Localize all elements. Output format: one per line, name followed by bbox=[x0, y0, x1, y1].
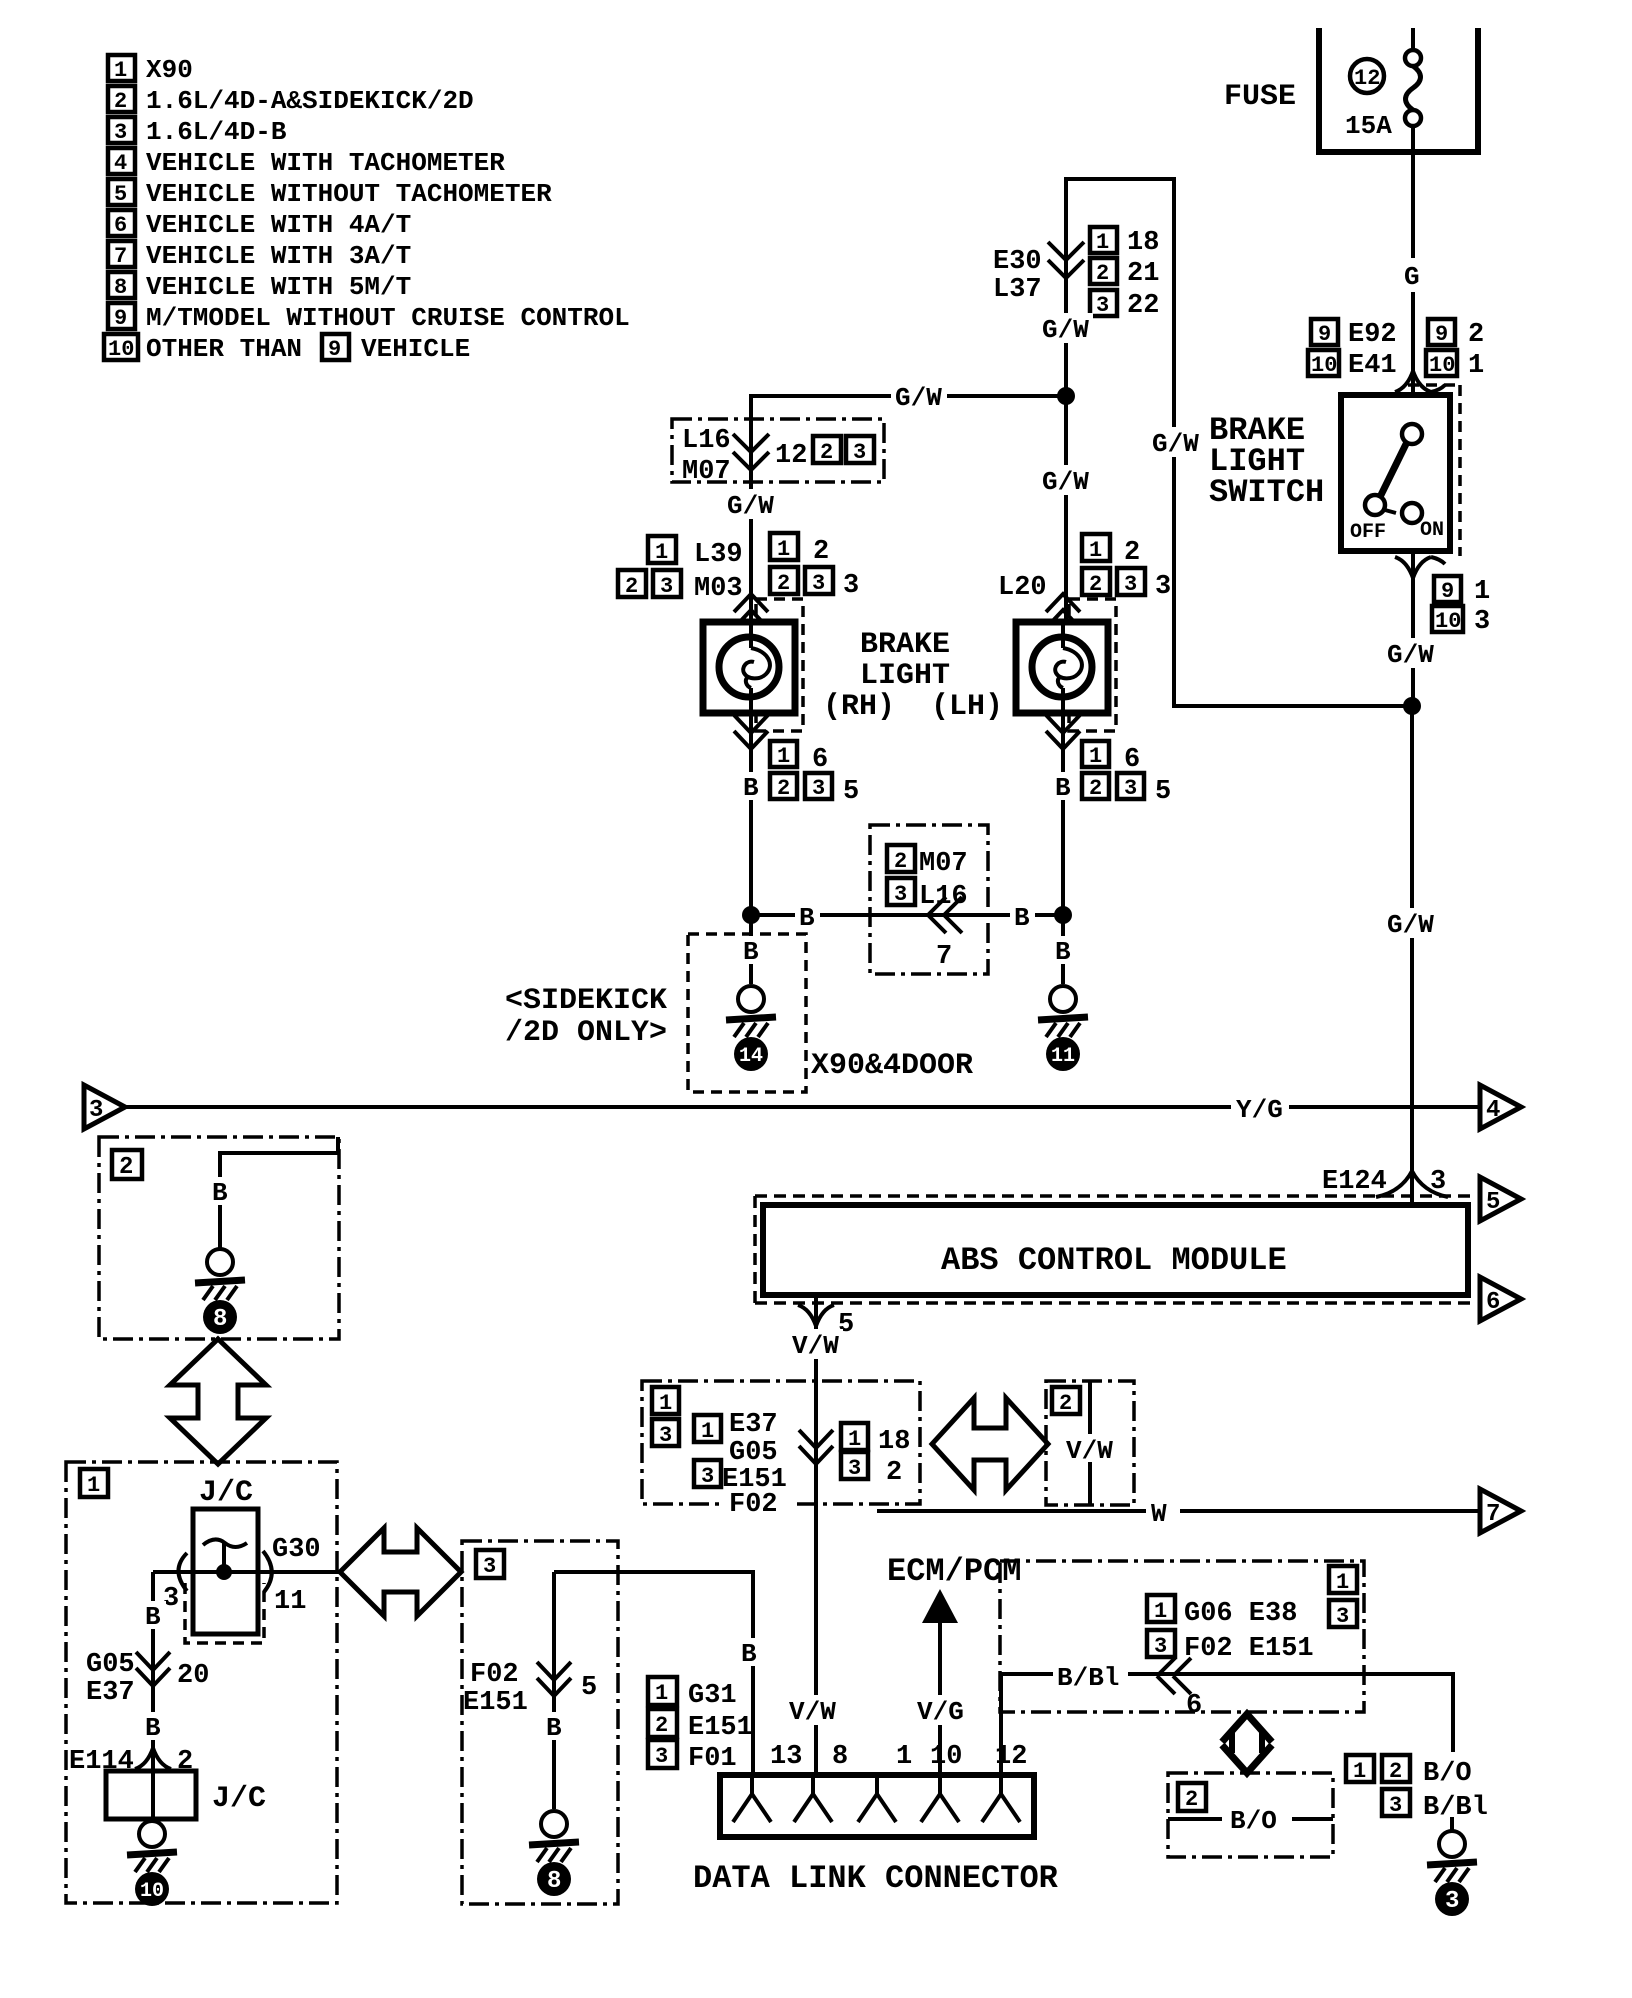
legend item 9 bbox=[108, 303, 630, 333]
wire label B at LH ground bbox=[1050, 936, 1076, 967]
ground symbol 8 upper bbox=[195, 1249, 245, 1334]
box 1 J/C bbox=[66, 1462, 337, 1903]
connector chevrons below RH bulb bbox=[734, 715, 768, 749]
svg-text:3: 3 bbox=[114, 120, 127, 145]
svg-text:3: 3 bbox=[483, 1554, 496, 1579]
svg-text:10: 10 bbox=[1311, 353, 1337, 378]
svg-text:10: 10 bbox=[140, 1880, 164, 1903]
svg-text:V/W: V/W bbox=[792, 1331, 839, 1361]
wire label G/W above RH lamp bbox=[724, 489, 778, 521]
svg-text:1: 1 bbox=[655, 1681, 668, 1706]
connector chevrons above RH bulb bbox=[734, 594, 768, 628]
legend item 7 bbox=[108, 241, 411, 271]
wire label B below LH bulb bbox=[1050, 772, 1076, 803]
svg-text:12: 12 bbox=[1354, 66, 1380, 91]
svg-text:2: 2 bbox=[1059, 1391, 1072, 1416]
ground symbol 11 bbox=[1038, 986, 1088, 1071]
svg-text:20: 20 bbox=[177, 1661, 209, 1691]
svg-text:14: 14 bbox=[739, 1045, 763, 1068]
svg-text:VEHICLE WITH 3A/T: VEHICLE WITH 3A/T bbox=[146, 241, 411, 271]
legend item 6 bbox=[108, 210, 411, 240]
svg-text:G/W: G/W bbox=[1042, 467, 1089, 497]
svg-text:B: B bbox=[1055, 773, 1071, 803]
svg-text:2: 2 bbox=[820, 440, 833, 465]
legend item 5 bbox=[108, 179, 552, 209]
brake light RH dashed box bbox=[756, 599, 803, 731]
wire below RH bulb bbox=[749, 713, 753, 915]
box 2 B/O bbox=[1168, 1773, 1333, 1857]
svg-text:E37: E37 bbox=[729, 1410, 778, 1440]
svg-text:ON: ON bbox=[1420, 519, 1444, 542]
connector chevrons above LH bulb bbox=[1046, 594, 1080, 628]
legend item 1 X90 bbox=[108, 55, 193, 85]
wire Y/G bbox=[125, 1095, 1478, 1125]
page arrow 7 right bbox=[1480, 1489, 1521, 1533]
box 2 upper left bbox=[99, 1137, 339, 1339]
wire B down from J/C bbox=[151, 1572, 155, 1771]
svg-text:X90&4DOOR: X90&4DOOR bbox=[811, 1049, 973, 1083]
svg-text:L16: L16 bbox=[682, 426, 731, 456]
connector G06/E38 box bbox=[1000, 1561, 1364, 1712]
wire label B at RH ground bbox=[738, 936, 764, 967]
connector L16/M07 box bbox=[672, 419, 884, 487]
ground wire RH bbox=[749, 915, 753, 984]
wire label B above DLC pin 13 bbox=[736, 1638, 764, 1669]
double arrow horizontal big bbox=[340, 1528, 461, 1616]
connector chevron at switch top bbox=[1395, 371, 1445, 392]
svg-text:B: B bbox=[741, 1639, 757, 1669]
connector chevron below switch bbox=[1395, 557, 1445, 578]
wire B between lamps bbox=[751, 913, 1063, 917]
svg-text:12: 12 bbox=[775, 441, 807, 471]
wire label B left bbox=[795, 901, 820, 933]
wire label B below RH bulb bbox=[738, 772, 764, 803]
svg-text:10: 10 bbox=[108, 337, 134, 362]
svg-text:VEHICLE: VEHICLE bbox=[361, 334, 470, 364]
svg-text:5: 5 bbox=[114, 182, 127, 207]
svg-text:G05: G05 bbox=[729, 1438, 778, 1468]
legend item 3 bbox=[108, 117, 287, 147]
svg-text:3: 3 bbox=[1336, 1604, 1349, 1629]
box 2 with V/W bbox=[1046, 1381, 1134, 1505]
wire label G/W on horizontal bbox=[891, 381, 947, 413]
wire label B right bbox=[1010, 901, 1035, 933]
svg-text:M/TMODEL WITHOUT CRUISE CONTRO: M/TMODEL WITHOUT CRUISE CONTROL bbox=[146, 303, 630, 333]
connector 6 chevrons bbox=[1157, 1658, 1202, 1721]
svg-text:18: 18 bbox=[878, 1427, 910, 1457]
svg-text:8: 8 bbox=[213, 1306, 227, 1333]
svg-text:VEHICLE WITH TACHOMETER: VEHICLE WITH TACHOMETER bbox=[146, 148, 505, 178]
svg-text:5: 5 bbox=[843, 777, 859, 807]
DLC pin numbers bbox=[770, 1742, 1027, 1772]
svg-text:G/W: G/W bbox=[1152, 429, 1199, 459]
svg-text:2: 2 bbox=[1096, 261, 1109, 286]
connector L39/M03 labels bbox=[618, 533, 859, 604]
svg-text:9: 9 bbox=[328, 337, 341, 362]
connector E124 chevron bbox=[1322, 1167, 1448, 1205]
svg-text:1: 1 bbox=[659, 1391, 672, 1416]
svg-text:11: 11 bbox=[274, 1587, 306, 1617]
svg-text:11: 11 bbox=[1051, 1045, 1075, 1068]
svg-text:L37: L37 bbox=[993, 275, 1042, 305]
svg-text:E41: E41 bbox=[1348, 351, 1397, 381]
svg-text:G/W: G/W bbox=[1042, 315, 1089, 345]
svg-text:2: 2 bbox=[655, 1713, 668, 1738]
wire label B under J/C bbox=[140, 1601, 166, 1632]
svg-text:2: 2 bbox=[1185, 1787, 1198, 1812]
svg-text:2: 2 bbox=[886, 1458, 902, 1488]
ground symbol 3 bbox=[1427, 1817, 1477, 1916]
wire B down in box 3 bbox=[552, 1572, 556, 1809]
svg-text:E151: E151 bbox=[688, 1713, 753, 1743]
wire label V/G at DLC bbox=[914, 1695, 966, 1727]
wire label B in box 3 bbox=[541, 1712, 567, 1743]
connector chevrons on V/W wire bbox=[799, 1430, 833, 1464]
svg-text:3: 3 bbox=[1430, 1167, 1446, 1197]
svg-text:E151: E151 bbox=[463, 1688, 528, 1718]
svg-text:3: 3 bbox=[660, 574, 673, 599]
legend item 4 bbox=[108, 148, 505, 178]
svg-text:1: 1 bbox=[777, 744, 790, 769]
wire B/Bl from DLC pin 12 bbox=[1001, 1663, 1453, 1775]
fuse element F12 bbox=[1405, 28, 1421, 126]
brake light LH dashed box bbox=[1069, 599, 1116, 731]
switch ON label bbox=[1420, 519, 1444, 542]
connector E92/E41 labels bbox=[1308, 319, 1484, 381]
node junction at switch output bbox=[1403, 697, 1421, 715]
ABS control module box bbox=[763, 1205, 1468, 1295]
svg-text:3: 3 bbox=[1154, 1634, 1167, 1659]
svg-text:5: 5 bbox=[1155, 777, 1171, 807]
svg-text:1: 1 bbox=[848, 1427, 861, 1452]
svg-text:1: 1 bbox=[1474, 577, 1490, 607]
svg-text:9: 9 bbox=[1441, 579, 1454, 604]
svg-text:B: B bbox=[799, 903, 815, 933]
svg-text:(RH) (LH): (RH) (LH) bbox=[823, 690, 1003, 724]
svg-text:3: 3 bbox=[1124, 572, 1137, 597]
svg-text:2: 2 bbox=[1089, 776, 1102, 801]
svg-text:15A: 15A bbox=[1345, 111, 1392, 141]
wire G30 through J/C bbox=[153, 1535, 340, 1572]
svg-text:1: 1 bbox=[1154, 1599, 1167, 1624]
svg-text:4: 4 bbox=[1486, 1097, 1500, 1124]
svg-text:G/W: G/W bbox=[727, 491, 774, 521]
svg-text:G31: G31 bbox=[688, 1681, 737, 1711]
svg-text:/2D ONLY>: /2D ONLY> bbox=[505, 1016, 667, 1050]
svg-text:G05: G05 bbox=[86, 1650, 135, 1680]
svg-text:J/C: J/C bbox=[212, 1782, 266, 1816]
svg-text:3: 3 bbox=[89, 1097, 103, 1124]
svg-text:3: 3 bbox=[843, 571, 859, 601]
node junction G/W branch bbox=[1057, 387, 1075, 405]
wire G from fuse bbox=[1404, 126, 1420, 395]
svg-text:3: 3 bbox=[1474, 607, 1490, 637]
svg-text:3: 3 bbox=[853, 440, 866, 465]
svg-text:G30: G30 bbox=[272, 1535, 321, 1565]
svg-text:B: B bbox=[212, 1178, 228, 1208]
brake light switch label bbox=[1209, 412, 1324, 511]
svg-text:7: 7 bbox=[1486, 1501, 1500, 1528]
svg-text:E124: E124 bbox=[1322, 1167, 1387, 1197]
svg-text:F02 E151: F02 E151 bbox=[1184, 1634, 1314, 1664]
DLC pin id boxes G31 E151 F01 bbox=[648, 1677, 753, 1774]
connector E114 chevron bbox=[69, 1747, 193, 1777]
svg-text:OTHER THAN: OTHER THAN bbox=[146, 334, 302, 364]
svg-text:9: 9 bbox=[1435, 322, 1448, 347]
wire B in box 2 bbox=[220, 1137, 338, 1248]
legend item 8 bbox=[108, 272, 411, 302]
brake light switch dashed boundary bbox=[1408, 385, 1460, 556]
svg-text:E92: E92 bbox=[1348, 320, 1397, 350]
ABS control module dashed boundary bbox=[755, 1196, 1475, 1303]
connector L20 labels bbox=[998, 534, 1171, 603]
svg-text:BRAKE: BRAKE bbox=[860, 628, 950, 662]
connector E30/L37 chevrons bbox=[1048, 242, 1084, 278]
switch OFF label bbox=[1350, 521, 1386, 544]
svg-text:3: 3 bbox=[1445, 1888, 1459, 1915]
svg-text:10: 10 bbox=[1435, 609, 1461, 634]
svg-text:2: 2 bbox=[1124, 538, 1140, 568]
svg-text:8: 8 bbox=[114, 275, 127, 300]
svg-text:VEHICLE WITHOUT TACHOMETER: VEHICLE WITHOUT TACHOMETER bbox=[146, 179, 552, 209]
svg-text:<SIDEKICK: <SIDEKICK bbox=[505, 984, 667, 1018]
junction connector J/C lower box bbox=[106, 1771, 266, 1819]
svg-text:10: 10 bbox=[1429, 353, 1455, 378]
svg-text:2: 2 bbox=[114, 89, 127, 114]
svg-text:2: 2 bbox=[777, 571, 790, 596]
wire label V/W upper bbox=[789, 1329, 843, 1361]
svg-text:3: 3 bbox=[1389, 1793, 1402, 1818]
svg-text:1: 1 bbox=[1468, 351, 1484, 381]
svg-text:1: 1 bbox=[777, 537, 790, 562]
wire G/W loop to E30/L37 bbox=[1066, 179, 1412, 706]
connector F02/E151 chevrons bbox=[463, 1660, 597, 1718]
svg-text:M03: M03 bbox=[694, 574, 743, 604]
svg-text:3: 3 bbox=[655, 1744, 668, 1769]
connector G05/E37 chevrons bbox=[86, 1650, 209, 1708]
svg-text:V/W: V/W bbox=[1066, 1436, 1113, 1466]
wire label B in box 2 bbox=[207, 1177, 233, 1208]
svg-text:2: 2 bbox=[1089, 572, 1102, 597]
svg-text:7: 7 bbox=[114, 244, 127, 269]
svg-text:B/O: B/O bbox=[1230, 1806, 1277, 1836]
brake light LH bulb bbox=[1016, 622, 1108, 713]
svg-text:X90: X90 bbox=[146, 55, 193, 85]
svg-text:SWITCH: SWITCH bbox=[1209, 474, 1324, 511]
ground wire LH bbox=[1061, 915, 1065, 984]
page arrow 6 right bbox=[1480, 1277, 1521, 1321]
svg-text:L39: L39 bbox=[694, 540, 743, 570]
svg-text:3: 3 bbox=[812, 776, 825, 801]
svg-text:VEHICLE WITH 4A/T: VEHICLE WITH 4A/T bbox=[146, 210, 411, 240]
svg-text:G/W: G/W bbox=[1387, 640, 1434, 670]
node junction RH ground bbox=[742, 906, 760, 924]
svg-text:B/Bl: B/Bl bbox=[1057, 1663, 1119, 1693]
svg-text:FUSE: FUSE bbox=[1224, 80, 1296, 114]
ECM/PCM label and arrow bbox=[887, 1553, 1021, 1775]
svg-text:M07: M07 bbox=[919, 849, 968, 879]
wire G/W to ABS module bbox=[1410, 706, 1414, 1174]
svg-text:6: 6 bbox=[114, 213, 127, 238]
double arrow vertical big bbox=[170, 1339, 266, 1464]
connector 7 chevrons bbox=[928, 897, 962, 933]
svg-text:8: 8 bbox=[547, 1868, 561, 1895]
svg-text:E30: E30 bbox=[993, 247, 1042, 277]
svg-text:7: 7 bbox=[936, 942, 952, 972]
svg-text:F01: F01 bbox=[688, 1744, 737, 1774]
svg-text:1: 1 bbox=[114, 58, 127, 83]
wire label G/W above junction bbox=[1039, 313, 1093, 345]
svg-text:E37: E37 bbox=[86, 1678, 135, 1708]
svg-text:LIGHT: LIGHT bbox=[860, 659, 950, 693]
LH lamp branch wire bbox=[1064, 396, 1068, 622]
wire label B above E114 bbox=[140, 1712, 166, 1743]
connector L16/M07 chevrons bbox=[733, 434, 769, 470]
svg-text:2: 2 bbox=[1468, 320, 1484, 350]
svg-text:ABS CONTROL MODULE: ABS CONTROL MODULE bbox=[941, 1242, 1287, 1279]
sidekick dashed box bbox=[688, 934, 806, 1092]
wire label G/W above module bbox=[1384, 908, 1440, 940]
svg-text:3: 3 bbox=[848, 1456, 861, 1481]
data link connector box bbox=[720, 1775, 1034, 1837]
V/W pin boxes 1-18 3-2 bbox=[841, 1423, 910, 1488]
page arrow 3 left bbox=[84, 1085, 125, 1129]
svg-text:3: 3 bbox=[894, 882, 907, 907]
svg-text:10: 10 bbox=[930, 1742, 962, 1772]
brake light labels RH LH bbox=[823, 628, 1003, 724]
svg-text:B/Bl: B/Bl bbox=[1423, 1793, 1488, 1823]
connector M07/L16 box 7 bbox=[870, 825, 988, 974]
LH bulb pin boxes 1-6 2/3-5 bbox=[1082, 741, 1171, 807]
svg-text:1: 1 bbox=[896, 1742, 912, 1772]
svg-text:DATA LINK CONNECTOR: DATA LINK CONNECTOR bbox=[693, 1860, 1059, 1897]
brake light switch box bbox=[1341, 395, 1450, 551]
wire from switch bottom bbox=[1411, 551, 1415, 706]
svg-text:6: 6 bbox=[1486, 1289, 1500, 1316]
svg-text:5: 5 bbox=[1486, 1189, 1500, 1216]
svg-text:G06 E38: G06 E38 bbox=[1184, 1599, 1297, 1629]
connector E37/G05/E151/F02 box bbox=[642, 1381, 920, 1520]
svg-text:V/W: V/W bbox=[789, 1697, 836, 1727]
svg-text:B: B bbox=[743, 937, 759, 967]
wire G/W horizontal to RH lamp branch bbox=[751, 396, 1066, 622]
wire label G/W on left vertical bbox=[1149, 427, 1205, 459]
connector arcs on J/C wire bbox=[179, 1551, 272, 1592]
svg-text:6: 6 bbox=[1124, 745, 1140, 775]
svg-text:3: 3 bbox=[812, 571, 825, 596]
svg-text:VEHICLE WITH 5M/T: VEHICLE WITH 5M/T bbox=[146, 272, 411, 302]
wire from box 3 to DLC pin 13 bbox=[554, 1572, 753, 1775]
RH bulb pin boxes 1-6 2/3-5 bbox=[770, 741, 859, 807]
legend item 10 bbox=[104, 334, 470, 364]
svg-text:1: 1 bbox=[655, 540, 668, 565]
svg-text:1: 1 bbox=[1089, 538, 1102, 563]
ABS module output pin 5 bbox=[798, 1295, 854, 1775]
svg-text:B: B bbox=[145, 1713, 161, 1743]
B/O B/Bl pin boxes bbox=[1346, 1755, 1488, 1823]
wire below LH bulb bbox=[1061, 713, 1065, 915]
junction connector J/C box bbox=[185, 1509, 264, 1643]
svg-text:6: 6 bbox=[1186, 1691, 1202, 1721]
svg-text:18: 18 bbox=[1127, 228, 1159, 258]
brake light RH bulb bbox=[703, 622, 795, 713]
svg-text:1: 1 bbox=[87, 1473, 100, 1498]
svg-text:2: 2 bbox=[625, 574, 638, 599]
svg-text:3: 3 bbox=[1096, 293, 1109, 318]
legend item 2 bbox=[108, 86, 474, 116]
page arrow 4 right bbox=[1480, 1085, 1521, 1129]
svg-text:1: 1 bbox=[1096, 230, 1109, 255]
ground symbol 14 bbox=[726, 986, 776, 1071]
wire label V/W at DLC bbox=[786, 1695, 840, 1727]
svg-text:B/O: B/O bbox=[1423, 1759, 1472, 1789]
fuse circuit number 12 bbox=[1350, 59, 1384, 93]
connector E30/L37 labels bbox=[993, 227, 1159, 321]
brake light switch contacts bbox=[1365, 424, 1422, 523]
box 3 bbox=[462, 1541, 618, 1904]
svg-text:F02: F02 bbox=[729, 1490, 778, 1520]
double arrow vertical small bbox=[1222, 1714, 1272, 1773]
svg-text:B: B bbox=[145, 1602, 161, 1632]
svg-text:22: 22 bbox=[1127, 291, 1159, 321]
svg-text:M07: M07 bbox=[682, 457, 731, 487]
svg-text:1: 1 bbox=[1089, 744, 1102, 769]
svg-text:8: 8 bbox=[832, 1742, 848, 1772]
svg-text:2: 2 bbox=[119, 1154, 133, 1181]
wire W to arrow 7 bbox=[877, 1499, 1478, 1529]
J/C pin labels 3 and 11 bbox=[163, 1584, 306, 1617]
double arrow mid bbox=[932, 1398, 1048, 1490]
X90 4door label bbox=[811, 1049, 973, 1083]
svg-text:9: 9 bbox=[1318, 322, 1331, 347]
wire label G/W above LH lamp bbox=[1039, 465, 1093, 497]
svg-text:21: 21 bbox=[1127, 259, 1159, 289]
svg-text:W: W bbox=[1151, 1499, 1167, 1529]
svg-text:J/C: J/C bbox=[199, 1476, 253, 1510]
page arrow 5 right bbox=[1480, 1177, 1521, 1221]
svg-text:1: 1 bbox=[1336, 1570, 1349, 1595]
svg-text:2: 2 bbox=[813, 537, 829, 567]
ground symbol 8 lower bbox=[529, 1811, 579, 1896]
svg-text:B: B bbox=[1055, 937, 1071, 967]
node junction LH ground bbox=[1054, 906, 1072, 924]
svg-text:1: 1 bbox=[701, 1419, 714, 1444]
switch pin boxes 9-1 10-3 bbox=[1432, 576, 1490, 637]
data link connector label bbox=[693, 1860, 1059, 1897]
connector chevrons below LH bulb bbox=[1046, 715, 1080, 749]
svg-text:6: 6 bbox=[812, 745, 828, 775]
svg-text:1.6L/4D-B: 1.6L/4D-B bbox=[146, 117, 287, 147]
svg-text:1.6L/4D-A&SIDEKICK/2D: 1.6L/4D-A&SIDEKICK/2D bbox=[146, 86, 474, 116]
svg-text:1: 1 bbox=[1353, 1759, 1366, 1784]
svg-text:9: 9 bbox=[114, 306, 127, 331]
DLC pin forks bbox=[733, 1775, 1020, 1822]
svg-text:L20: L20 bbox=[998, 573, 1047, 603]
svg-text:2: 2 bbox=[894, 849, 907, 874]
svg-text:B: B bbox=[546, 1713, 562, 1743]
svg-text:5: 5 bbox=[581, 1673, 597, 1703]
svg-text:3: 3 bbox=[659, 1423, 672, 1448]
svg-text:3: 3 bbox=[701, 1464, 714, 1489]
svg-text:3: 3 bbox=[1155, 572, 1171, 602]
svg-text:B: B bbox=[743, 773, 759, 803]
svg-text:V/G: V/G bbox=[917, 1697, 964, 1727]
svg-text:G/W: G/W bbox=[895, 383, 942, 413]
svg-text:4: 4 bbox=[114, 151, 127, 176]
fuse 15A bbox=[1345, 111, 1392, 141]
svg-text:G: G bbox=[1404, 262, 1420, 292]
svg-text:2: 2 bbox=[777, 776, 790, 801]
